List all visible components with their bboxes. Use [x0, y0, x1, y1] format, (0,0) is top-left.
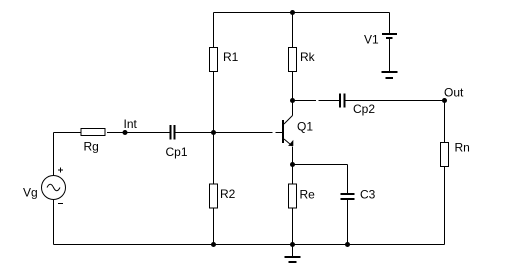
- wire Rk to collector node: [292, 72, 294, 101]
- node Int: [123, 117, 138, 135]
- wire R1 to base node: [213, 72, 215, 133]
- resistor R2: [210, 184, 236, 208]
- svg-text:Cp1: Cp1: [166, 145, 188, 159]
- resistor R1: [210, 48, 239, 72]
- svg-text:V1: V1: [364, 33, 379, 47]
- svg-text:Vg: Vg: [23, 186, 38, 200]
- svg-text:R2: R2: [220, 187, 236, 201]
- wire Rk top lead: [292, 13, 294, 48]
- resistor Rk: [289, 48, 316, 72]
- wire collector drop: [292, 101, 294, 116]
- resistor Re: [289, 184, 316, 208]
- svg-text:Rn: Rn: [455, 141, 470, 155]
- wire Re top lead: [292, 165, 294, 185]
- capacitor Cp2: [340, 94, 375, 117]
- ground main: [285, 245, 301, 263]
- wire R1 top lead: [213, 13, 215, 48]
- svg-text:Re: Re: [300, 188, 316, 202]
- transistor Q1: [283, 116, 313, 147]
- wire bottom rail: [54, 244, 445, 246]
- node Out: [442, 86, 464, 104]
- wire input left: [54, 132, 82, 134]
- node collector junction: [290, 98, 295, 103]
- svg-text:R1: R1: [223, 50, 239, 64]
- wire emitter to C3: [293, 165, 348, 194]
- wire Int to Cp1: [125, 132, 170, 134]
- svg-text:C3: C3: [360, 188, 376, 202]
- ground V1: [382, 72, 398, 78]
- wire Vg bottom lead: [53, 200, 55, 245]
- wire Cp1 to base node: [176, 132, 214, 134]
- wire Re bottom lead: [292, 208, 294, 245]
- wire Rn to bottom rail: [444, 167, 446, 245]
- resistor Rg: [81, 129, 105, 154]
- svg-text:Int: Int: [124, 117, 138, 131]
- svg-text:Rg: Rg: [84, 140, 99, 154]
- wire V1 top lead: [389, 13, 391, 34]
- wire top rail: [214, 12, 390, 14]
- node bottom rail R2: [211, 242, 216, 247]
- wire collector node to Cp2: [294, 100, 339, 102]
- svg-text:Q1: Q1: [297, 120, 313, 134]
- wire V1 to ground: [389, 39, 391, 71]
- wire C3 bottom lead: [347, 200, 349, 245]
- node emitter junction: [290, 162, 295, 167]
- wire emitter drop: [292, 147, 294, 165]
- node bottom Re: [290, 242, 295, 247]
- wire R2 bottom lead: [213, 208, 215, 245]
- wire base: [214, 132, 283, 134]
- svg-text:Cp2: Cp2: [353, 102, 375, 116]
- node bottom C3: [345, 242, 350, 247]
- wire R2 top lead: [213, 133, 215, 185]
- svg-text:Out: Out: [444, 86, 464, 100]
- source Vg: [23, 168, 66, 204]
- capacitor C3: [341, 188, 376, 202]
- wire Rg to Int: [107, 132, 125, 134]
- node base row junction: [211, 130, 216, 135]
- wire Out to Rn: [444, 101, 446, 143]
- battery V1: [364, 33, 397, 47]
- resistor Rn: [441, 141, 470, 167]
- capacitor Cp1: [166, 125, 188, 159]
- node top junction: [290, 10, 295, 15]
- wire Cp2 to Out: [346, 100, 445, 102]
- svg-text:Rk: Rk: [300, 50, 316, 64]
- wire Vg top lead: [53, 133, 55, 176]
